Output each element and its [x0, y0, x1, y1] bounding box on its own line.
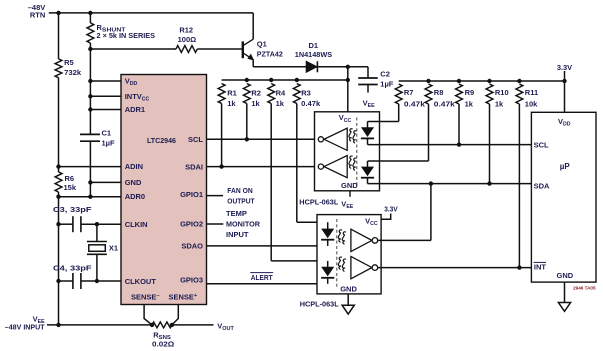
svg-text:FAN ON: FAN ON [227, 186, 252, 195]
svg-text:SENSE–: SENSE– [131, 292, 160, 301]
svg-text:0.47k: 0.47k [301, 99, 321, 108]
svg-text:GND: GND [125, 178, 142, 187]
svg-text:1µF: 1µF [102, 138, 115, 147]
svg-text:LTC2946: LTC2946 [147, 136, 176, 145]
svg-text:2946 TA05: 2946 TA05 [573, 286, 596, 291]
svg-text:INT: INT [534, 263, 547, 272]
svg-text:R1: R1 [227, 88, 237, 97]
svg-text:ADR1: ADR1 [125, 105, 145, 114]
svg-text:1k: 1k [227, 99, 236, 108]
svg-text:2 × 5k IN SERIES: 2 × 5k IN SERIES [97, 31, 156, 40]
svg-text:732k: 732k [64, 68, 82, 77]
svg-text:INPUT: INPUT [226, 230, 249, 239]
svg-text:CLKIN: CLKIN [125, 220, 148, 229]
svg-text:0.47k: 0.47k [404, 100, 426, 109]
svg-text:R2: R2 [251, 88, 261, 97]
svg-text:GPIO2: GPIO2 [180, 220, 203, 229]
svg-text:µP: µP [560, 162, 571, 171]
svg-text:TEMP: TEMP [226, 209, 247, 218]
svg-text:1k: 1k [276, 99, 285, 108]
svg-text:D1: D1 [309, 41, 319, 50]
svg-text:0.47k: 0.47k [434, 100, 456, 109]
svg-text:1µF: 1µF [380, 79, 393, 88]
svg-text:R11: R11 [525, 88, 538, 97]
svg-text:15k: 15k [64, 183, 77, 192]
svg-text:GPIO1: GPIO1 [180, 190, 203, 199]
svg-text:R10: R10 [495, 88, 509, 97]
svg-text:SENSE+: SENSE+ [169, 292, 198, 301]
svg-text:Q1: Q1 [257, 39, 267, 48]
svg-text:MONITOR: MONITOR [226, 219, 261, 228]
svg-text:RTN: RTN [30, 11, 45, 20]
svg-text:PZTA42: PZTA42 [257, 49, 283, 58]
svg-text:GPIO3: GPIO3 [180, 275, 203, 284]
svg-text:ALERT: ALERT [251, 273, 273, 282]
svg-text:ADR0: ADR0 [125, 192, 145, 201]
svg-text:–48V INPUT: –48V INPUT [5, 323, 45, 332]
svg-text:0.02Ω: 0.02Ω [152, 340, 174, 349]
svg-text:C1: C1 [102, 129, 112, 138]
svg-text:R3: R3 [301, 88, 311, 97]
svg-text:R5: R5 [64, 58, 74, 67]
svg-text:C3, 33pF: C3, 33pF [53, 205, 92, 214]
svg-text:R4: R4 [276, 88, 286, 97]
svg-text:SDAI: SDAI [185, 162, 203, 171]
svg-text:C2: C2 [380, 69, 390, 78]
svg-text:HCPL-063L: HCPL-063L [300, 300, 339, 309]
svg-text:SCL: SCL [534, 141, 549, 150]
svg-text:R7: R7 [404, 88, 414, 97]
svg-text:GND: GND [340, 285, 357, 294]
svg-text:GND: GND [341, 181, 358, 190]
svg-text:1k: 1k [465, 100, 474, 109]
svg-text:R9: R9 [465, 88, 475, 97]
svg-text:R12: R12 [179, 26, 193, 35]
svg-text:100Ω: 100Ω [178, 35, 197, 44]
svg-text:1N4148WS: 1N4148WS [295, 50, 332, 59]
svg-text:OUTPUT: OUTPUT [227, 196, 255, 205]
svg-text:SDAO: SDAO [181, 242, 203, 251]
svg-text:GND: GND [557, 271, 574, 280]
svg-text:3.3V: 3.3V [384, 204, 398, 213]
svg-text:R8: R8 [434, 88, 444, 97]
svg-text:10k: 10k [525, 100, 538, 109]
svg-text:1k: 1k [251, 99, 260, 108]
svg-text:HCPL-063L: HCPL-063L [299, 197, 338, 206]
svg-text:C4, 33pF: C4, 33pF [53, 263, 92, 272]
svg-text:ADIN: ADIN [125, 162, 143, 171]
svg-text:SDA: SDA [534, 181, 550, 190]
svg-text:X1: X1 [109, 244, 118, 253]
svg-text:1k: 1k [495, 100, 504, 109]
svg-text:3.3V: 3.3V [557, 63, 572, 72]
svg-text:R6: R6 [65, 174, 75, 183]
svg-text:CLKOUT: CLKOUT [125, 277, 157, 286]
svg-text:SCL: SCL [188, 135, 203, 144]
